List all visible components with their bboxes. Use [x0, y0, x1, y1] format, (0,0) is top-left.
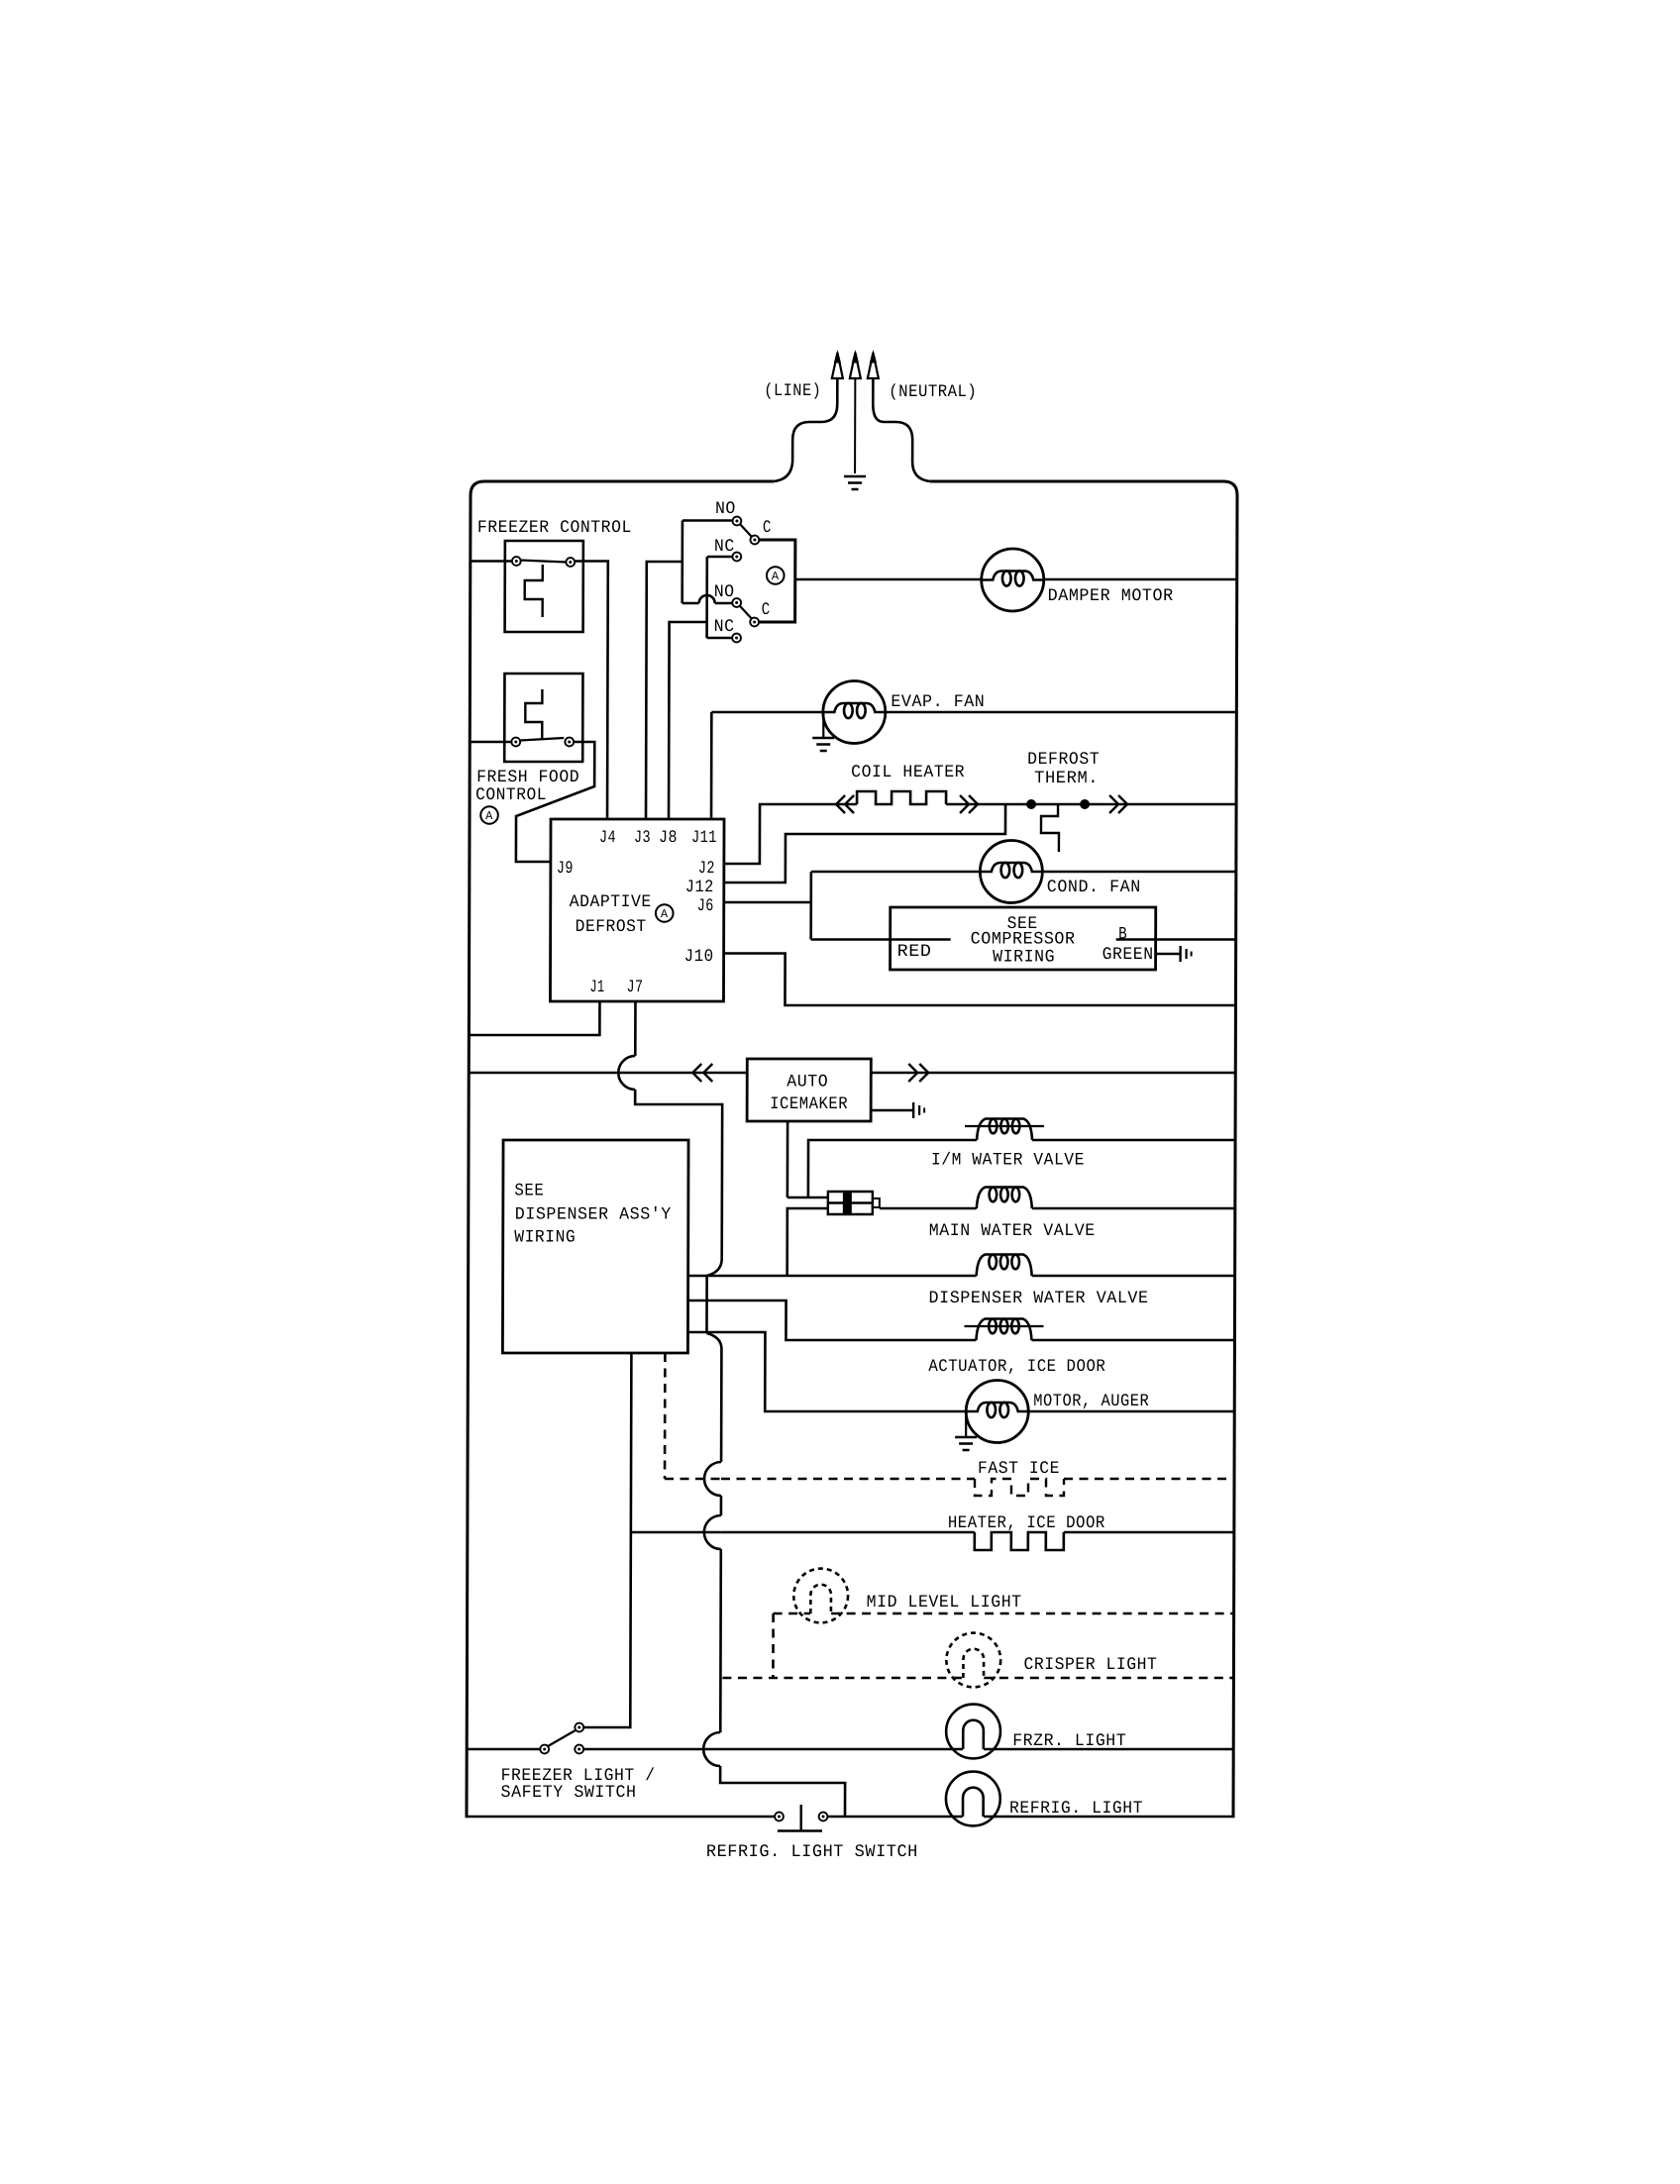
svg-text:J9: J9 — [557, 859, 574, 879]
circled A adaptive defrost — [656, 904, 674, 922]
svg-text:DEFROST: DEFROST — [576, 917, 647, 937]
connector chevrons icemaker left — [692, 1064, 701, 1082]
svg-text:GREEN: GREEN — [1102, 945, 1154, 965]
freezer control contact right — [566, 558, 575, 567]
relay box outline — [760, 540, 795, 622]
fresh food sensing element — [525, 689, 542, 739]
wire J6 riser — [725, 901, 811, 904]
svg-text:DISPENSER ASS'Y: DISPENSER ASS'Y — [515, 1205, 672, 1225]
connector chevrons coil heater right — [960, 795, 969, 813]
connector chevrons defrost right — [1109, 795, 1118, 813]
svg-text:J8: J8 — [659, 828, 678, 848]
fresh food control box — [504, 674, 582, 762]
wire defrost therm to border — [1108, 803, 1236, 806]
svg-text:HEATER, ICE DOOR: HEATER, ICE DOOR — [948, 1513, 1105, 1533]
ground symbol evap fan — [812, 737, 834, 739]
wire border to auto icemaker — [469, 1072, 747, 1075]
wire fast ice dashed left — [665, 1478, 721, 1481]
wire dispenser box dashed drop — [664, 1353, 667, 1479]
wire border to refrig switch — [467, 1816, 775, 1819]
wire outer border right side — [1233, 495, 1237, 1816]
wire freezer control to J4 — [574, 562, 608, 820]
auto icemaker box — [747, 1059, 871, 1121]
evap fan motor M2 — [823, 681, 886, 744]
heater ice door element — [975, 1532, 1064, 1550]
auger motor M4 — [966, 1381, 1028, 1443]
frzr light lamp E1 — [946, 1705, 1000, 1759]
fresh food blade — [520, 738, 564, 741]
relay contact NC2 — [732, 634, 741, 643]
fresh food contact left — [511, 738, 520, 747]
wire mid level dashed drop — [772, 1613, 775, 1678]
svg-text:DISPENSER WATER VALVE: DISPENSER WATER VALVE — [929, 1289, 1149, 1308]
wire mid level light dashed — [774, 1612, 811, 1615]
svg-text:B: B — [1118, 925, 1127, 945]
dispenser assembly box — [502, 1140, 688, 1353]
wire heater ice door left — [631, 1531, 721, 1534]
wire heater ice door — [721, 1531, 975, 1534]
fresh food contact right — [565, 738, 574, 747]
wire icemaker to connector — [787, 1121, 789, 1197]
wire J7 vertical hop fast ice — [704, 1462, 721, 1496]
wire J7 vertical to refrig switch — [720, 1766, 845, 1817]
wire J7 vertical mid2 — [719, 1549, 722, 1732]
wire auger to border — [1028, 1410, 1234, 1413]
ground symbol supply — [844, 475, 866, 477]
terminal arrow NEUTRAL — [868, 353, 879, 378]
svg-text:NC: NC — [714, 617, 735, 637]
wire J7 vertical mid1 — [720, 1496, 723, 1515]
svg-text:COMPRESSOR: COMPRESSOR — [971, 930, 1076, 950]
wire J1 to border — [469, 1001, 599, 1035]
ACTUATOR ice door coil L4 — [976, 1319, 1031, 1341]
relay contact NC1 — [732, 553, 741, 562]
freezer control contact left — [512, 557, 521, 566]
wire relay NC branch to J8 — [669, 622, 707, 819]
wire J6 riser vertical — [809, 872, 812, 940]
wire J2 to coil heater — [725, 804, 857, 864]
svg-text:A: A — [661, 907, 669, 921]
wire outer border bottom corners — [465, 1810, 468, 1818]
svg-text:NO: NO — [714, 582, 735, 602]
wire fast ice dashed to heater — [721, 1478, 975, 1481]
freezer control box — [505, 541, 583, 632]
connector chevrons coil heater left — [836, 795, 845, 813]
wire heater ice door to border — [1064, 1531, 1234, 1534]
svg-text:COIL HEATER: COIL HEATER — [851, 763, 965, 782]
terminal arrow ground — [850, 353, 861, 378]
svg-text:I/M WATER VALVE: I/M WATER VALVE — [931, 1151, 1085, 1171]
svg-text:C: C — [763, 518, 772, 538]
wire outer border left side — [467, 495, 471, 1817]
relay blade top — [740, 524, 753, 538]
relay contact C2 — [750, 618, 759, 627]
wire heater to defrost therm — [946, 803, 1108, 806]
fast ice heater element dashed — [975, 1479, 1064, 1496]
wire I/M valve to border — [1032, 1139, 1235, 1142]
svg-text:J6: J6 — [697, 896, 714, 916]
defrost therm terminal dot left — [1026, 799, 1036, 809]
coil heater element — [857, 791, 946, 804]
ground symbol compressor green — [1179, 946, 1181, 962]
wire crisper light dashed — [722, 1677, 963, 1680]
freezer light switch blade — [547, 1730, 577, 1747]
cond fan motor M3 — [980, 841, 1042, 903]
wire relay NC riser — [705, 557, 708, 638]
svg-text:WIRING: WIRING — [514, 1228, 576, 1248]
svg-text:MOTOR, AUGER: MOTOR, AUGER — [1033, 1392, 1149, 1411]
svg-text:J2: J2 — [698, 859, 715, 879]
wire dispenser box to actuator — [687, 1300, 976, 1340]
wire outer border top left segment — [484, 480, 774, 483]
svg-text:EVAP. FAN: EVAP. FAN — [891, 692, 985, 712]
wire dispenser valve to border — [1032, 1275, 1235, 1278]
wire J11 to evap fan — [711, 711, 823, 714]
svg-text:ICEMAKER: ICEMAKER — [770, 1094, 848, 1114]
freezer control blade — [520, 561, 567, 563]
wire I/M valve left lead — [808, 1140, 977, 1197]
evap fan ground stem — [822, 712, 824, 737]
wire relay NC2 stub — [707, 637, 732, 640]
crisper light lamp DS2 — [946, 1633, 1000, 1688]
svg-text:NC: NC — [714, 537, 735, 557]
wire border to freezer control — [471, 560, 512, 563]
svg-text:(LINE): (LINE) — [764, 381, 821, 401]
svg-text:J4: J4 — [599, 828, 616, 848]
refrig switch plunger — [799, 1805, 801, 1830]
wire relay to damper motor — [795, 578, 982, 581]
svg-text:J12: J12 — [685, 878, 714, 897]
wire dispenser valve lead — [688, 1275, 977, 1278]
relay contact NO1 — [733, 517, 742, 526]
relay blade bottom — [740, 606, 753, 620]
wire GREEN to ground — [1156, 953, 1181, 956]
mid level light lamp DS1 — [793, 1569, 848, 1623]
wire J11 riser — [710, 712, 713, 819]
defrost therm sensing element — [1041, 804, 1059, 852]
svg-text:FRZR. LIGHT: FRZR. LIGHT — [1012, 1731, 1126, 1751]
I/M water valve coil L1 — [977, 1119, 1032, 1141]
wire J7 vertical hop heater door — [704, 1515, 721, 1549]
adaptive defrost board box — [550, 819, 724, 1001]
svg-text:J11: J11 — [691, 828, 717, 848]
freezer light switch contact upper — [575, 1723, 583, 1732]
wire freezer light line — [583, 1748, 963, 1751]
svg-text:J7: J7 — [626, 978, 643, 997]
svg-text:A: A — [485, 809, 493, 823]
wire J10 out — [724, 954, 1235, 1006]
svg-text:CONTROL: CONTROL — [475, 785, 547, 805]
wire heater return to J12 — [725, 804, 1005, 883]
wire J6 to cond fan — [811, 871, 980, 874]
svg-text:CRISPER LIGHT: CRISPER LIGHT — [1023, 1655, 1157, 1675]
svg-text:DAMPER MOTOR: DAMPER MOTOR — [1048, 586, 1174, 606]
ground symbol auger — [955, 1436, 977, 1438]
svg-text:FREEZER CONTROL: FREEZER CONTROL — [477, 518, 632, 538]
svg-text:ADAPTIVE: ADAPTIVE — [570, 892, 652, 912]
svg-text:DEFROST: DEFROST — [1027, 750, 1100, 770]
DISPENSER water valve coil L3 — [977, 1255, 1032, 1277]
svg-text:MAIN WATER VALVE: MAIN WATER VALVE — [929, 1221, 1096, 1241]
svg-text:RED: RED — [897, 942, 932, 962]
svg-text:J1: J1 — [589, 978, 604, 997]
refrig switch contact left — [775, 1813, 784, 1821]
wire actuator to border — [1031, 1339, 1234, 1342]
wire fast ice dashed to border — [1064, 1478, 1234, 1481]
freezer light switch contact lower — [575, 1745, 583, 1754]
wire dispenser box to freezer switch — [583, 1353, 631, 1727]
svg-text:J10: J10 — [684, 947, 714, 967]
svg-text:ACTUATOR, ICE DOOR: ACTUATOR, ICE DOOR — [928, 1357, 1105, 1377]
wire connector top pin — [787, 1196, 828, 1199]
svg-text:SAFETY SWITCH: SAFETY SWITCH — [501, 1783, 637, 1803]
svg-text:WIRING: WIRING — [993, 948, 1055, 968]
connector chevrons icemaker right — [908, 1064, 917, 1082]
ground symbol icemaker — [912, 1102, 914, 1118]
svg-text:REFRIG. LIGHT: REFRIG. LIGHT — [1009, 1799, 1143, 1819]
wire B to border — [1116, 938, 1236, 941]
svg-text:FRESH FOOD: FRESH FOOD — [476, 768, 579, 787]
wire relay NC1 to riser — [707, 556, 732, 559]
svg-text:COND. FAN: COND. FAN — [1047, 878, 1141, 897]
freezer control sensing element — [525, 565, 543, 617]
wire connector to main valve — [880, 1207, 977, 1210]
wire refrig light line — [827, 1816, 962, 1819]
wire evap fan to border — [886, 711, 1237, 714]
damper motor M1 — [982, 549, 1044, 611]
wire main valve to border — [1032, 1207, 1235, 1210]
svg-text:SEE: SEE — [514, 1182, 544, 1201]
defrost therm terminal dot right — [1080, 799, 1090, 809]
wire border to fresh food control — [470, 741, 511, 744]
wire relay NO2 feed with hop — [682, 602, 699, 605]
freezer light switch common — [540, 1745, 549, 1754]
relay contact C1 — [750, 536, 759, 545]
MAIN water valve coil L2 — [977, 1188, 1032, 1209]
wire fresh food to J9 — [516, 742, 594, 862]
svg-text:A: A — [772, 570, 780, 583]
wire connector bottom pin — [787, 1208, 828, 1276]
auger ground stem — [965, 1411, 967, 1436]
svg-text:FAST ICE: FAST ICE — [978, 1459, 1060, 1479]
wire cond fan to border — [1043, 871, 1236, 874]
svg-text:THERM.: THERM. — [1034, 769, 1099, 788]
circled A fresh food — [480, 806, 498, 824]
wire relay left riser — [681, 521, 683, 604]
refrig light lamp E2 — [946, 1772, 1000, 1826]
wire icemaker to border right — [871, 1072, 1235, 1075]
wire top border S-curve to NEUTRAL arrow — [873, 379, 930, 481]
connector plug housing — [828, 1192, 873, 1214]
svg-text:REFRIG. LIGHT SWITCH: REFRIG. LIGHT SWITCH — [706, 1842, 918, 1862]
wire RED to compressor box — [811, 938, 951, 941]
wire J7 vertical hop freezer light — [703, 1732, 720, 1766]
svg-text:C: C — [762, 600, 771, 620]
refrig switch contact right — [819, 1813, 828, 1821]
relay contact NO2 — [732, 598, 741, 607]
svg-text:(NEUTRAL): (NEUTRAL) — [889, 382, 977, 402]
svg-text:J3: J3 — [634, 828, 651, 848]
circled A relay — [767, 567, 785, 584]
svg-text:MID LEVEL LIGHT: MID LEVEL LIGHT — [867, 1593, 1022, 1612]
wire top border S-curve to LINE arrow — [774, 379, 837, 481]
wire relay NO1 feed — [682, 519, 732, 522]
wire dispenser box to auger — [687, 1332, 966, 1411]
wire damper motor to border — [1044, 578, 1237, 581]
wire border to freezer light switch — [467, 1748, 540, 1751]
compressor box — [891, 907, 1156, 970]
wire relay branch to J3 — [646, 562, 682, 819]
wire J7 drop with hop — [634, 1001, 637, 1056]
terminal arrow LINE — [832, 353, 843, 378]
svg-text:NO: NO — [715, 499, 736, 519]
svg-text:AUTO: AUTO — [787, 1073, 828, 1092]
wire top border right segment — [930, 480, 1223, 483]
wire icemaker ground — [871, 1109, 913, 1112]
